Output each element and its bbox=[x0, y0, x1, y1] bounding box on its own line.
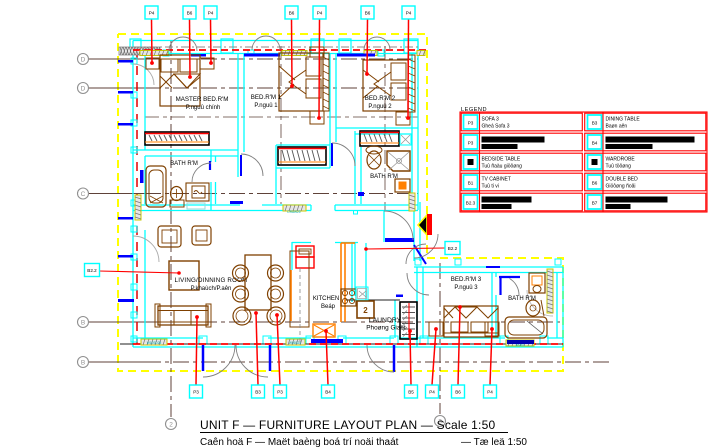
svg-text:B1: B1 bbox=[468, 181, 474, 186]
wall notch kitchen door L bbox=[310, 205, 312, 211]
grid line C y=193.5 bbox=[89, 193, 145, 195]
grid bubble B bbox=[78, 357, 89, 368]
legend row 4 R (B6 DOUBLE BED) bbox=[588, 175, 639, 190]
title underline bbox=[200, 432, 508, 434]
svg-text:P3: P3 bbox=[468, 141, 474, 146]
wall bottom inner seg3 bbox=[343, 337, 394, 339]
svg-text:Gheá Sofa 3: Gheá Sofa 3 bbox=[482, 124, 510, 130]
grid bubble D bbox=[78, 83, 89, 94]
svg-text:P.nguû chính: P.nguû chính bbox=[186, 105, 221, 111]
svg-text:P4: P4 bbox=[149, 11, 155, 16]
svg-text:P4: P4 bbox=[487, 390, 493, 395]
wall hall nook bottom bbox=[276, 167, 330, 169]
svg-text:2: 2 bbox=[169, 421, 173, 428]
wall bed3 left bbox=[416, 267, 418, 347]
wall left fill (dark red) bbox=[136, 50, 138, 344]
door blue kitchen back bbox=[311, 339, 343, 343]
door jamb bed3 bbox=[486, 266, 500, 268]
wall bath2 left inner bbox=[360, 147, 362, 204]
svg-text:BATH R'M: BATH R'M bbox=[508, 296, 536, 302]
wall kitchen left bbox=[291, 242, 293, 270]
wall bottom inner seg5 bbox=[547, 337, 563, 339]
window blue left bath1 bbox=[140, 170, 144, 183]
wall bed3-bath3 bbox=[491, 273, 493, 339]
wall bath2 top bbox=[336, 127, 418, 129]
svg-text:B5: B5 bbox=[408, 390, 414, 395]
svg-text:LAUNDRY: LAUNDRY bbox=[369, 317, 402, 324]
window sill top-right bbox=[417, 51, 425, 56]
door arc left wall living bbox=[133, 236, 159, 262]
window sill bottom kitchen bbox=[286, 339, 305, 345]
label box P4 bottom x=432 bbox=[426, 385, 439, 398]
door arc bed2 bbox=[332, 143, 355, 166]
svg-text:B3: B3 bbox=[592, 121, 598, 126]
svg-text:B4: B4 bbox=[325, 390, 331, 395]
wall top inner bbox=[133, 53, 418, 55]
toilet bath2 bbox=[366, 146, 382, 169]
wall kitchen-laundry bbox=[351, 243, 353, 302]
grid line D y=88 bbox=[89, 87, 145, 89]
wall left inner bbox=[144, 53, 146, 150]
wall topblock bottom inner2 bbox=[262, 204, 311, 206]
svg-text:P3: P3 bbox=[193, 390, 199, 395]
wall bed3-bath3 inner bbox=[495, 273, 497, 278]
leader top 1 bbox=[151, 19, 154, 63]
wall top outer bbox=[133, 40, 418, 42]
grid bubble 2 bbox=[166, 419, 177, 430]
wall bottom black line bbox=[120, 343, 563, 345]
corner hatch block top-left bbox=[119, 47, 160, 55]
window swing top 1a bbox=[169, 37, 183, 51]
window blue top seg2 bbox=[337, 54, 375, 57]
door leaf bath3 bbox=[499, 276, 501, 295]
wall bed3 left inner bbox=[422, 267, 424, 338]
window sill right bath3 bbox=[547, 269, 553, 313]
fridge kitchen bbox=[296, 246, 314, 268]
door arc bed3 entry bbox=[407, 273, 429, 295]
svg-text:KITCHEN: KITCHEN bbox=[313, 296, 339, 302]
wardrobe B4 hall (hatched) bbox=[278, 147, 326, 165]
label box P4 top x=319.5 bbox=[313, 6, 326, 19]
wall right-top inner bbox=[411, 53, 413, 204]
leader top 6 bbox=[366, 19, 369, 74]
window sill bottom living bbox=[141, 339, 167, 345]
window blue left y218 bbox=[118, 217, 133, 220]
wall kitchen top L bbox=[292, 242, 311, 244]
legend row 1 R (B3 DINING TABLE) bbox=[588, 115, 641, 130]
door arc living R bbox=[236, 345, 268, 377]
door arc living L bbox=[203, 345, 235, 377]
svg-text:B6: B6 bbox=[455, 390, 461, 395]
door blue bath3 bottom bbox=[507, 340, 534, 344]
svg-text:MASTER BED.R'M: MASTER BED.R'M bbox=[176, 96, 229, 103]
leader bottom 6 bbox=[432, 329, 436, 385]
door arc master bbox=[241, 154, 263, 176]
window swing top 2a bbox=[252, 36, 266, 50]
door arc entry lower bbox=[406, 244, 426, 264]
wall entry left bbox=[413, 202, 415, 261]
wall entry left inner bbox=[419, 202, 421, 261]
armchair 1 living bbox=[158, 226, 181, 247]
window swing top 3b bbox=[377, 37, 390, 50]
leader bottom 8 bbox=[490, 329, 492, 385]
grid line 2 (vertical) bbox=[170, 40, 172, 417]
wall master-bed1 inner bbox=[243, 53, 245, 152]
red dashed line bottom wall bbox=[133, 343, 563, 345]
svg-text:BATH R'M: BATH R'M bbox=[370, 174, 398, 180]
mirror box bath2 bbox=[400, 134, 411, 145]
double bed B6 (bedroom 2) bbox=[363, 55, 415, 125]
legend row 3 R (sq WARDROBE) bbox=[588, 155, 636, 170]
wall jamb boxes (cyan) bbox=[131, 50, 561, 344]
window blue left y61 bbox=[118, 60, 133, 63]
wall master-bed1 outer bbox=[237, 53, 239, 177]
leader top 5 bbox=[318, 19, 321, 118]
svg-text:B6: B6 bbox=[592, 181, 598, 186]
svg-text:P4: P4 bbox=[429, 390, 435, 395]
leader bottom 2 bbox=[256, 313, 258, 385]
grid line B y=362 bbox=[89, 361, 145, 363]
wall right outer bbox=[562, 267, 564, 347]
svg-text:P.khaùch/P.aên: P.khaùch/P.aên bbox=[191, 286, 232, 292]
svg-text:W10SD25: W10SD25 bbox=[147, 341, 162, 345]
grid line B y=322 bbox=[89, 321, 145, 323]
wall bottom outer bbox=[133, 346, 563, 348]
grid line 3 (vertical) bbox=[439, 263, 441, 414]
drying rack laundry B5 bbox=[400, 302, 417, 339]
stove kitchen bbox=[341, 289, 356, 306]
svg-text:DRAW25: DRAW25 bbox=[287, 210, 300, 214]
sink bath2 bbox=[395, 179, 410, 192]
door arc right wall bbox=[527, 290, 553, 316]
door leaf living balcony L bbox=[202, 345, 205, 371]
red dashed line top wall bbox=[133, 49, 427, 51]
wall left inner living bbox=[144, 230, 146, 338]
vanity bath2 (hatched) bbox=[360, 131, 399, 146]
grid bubble 3 bbox=[435, 416, 446, 427]
svg-text:UNIT F — FURNITURE LAYOUT: UNIT F — FURNITURE LAYOUT PLAN — Scale 1… bbox=[200, 418, 495, 432]
wall master-bath1 bottom bbox=[145, 155, 238, 157]
legend row 1 L (P3 SOFA 3) bbox=[464, 115, 510, 130]
label box B2.2 left bbox=[85, 264, 100, 277]
window blue left y256 bbox=[118, 255, 133, 258]
svg-text:P.nguû 2: P.nguû 2 bbox=[368, 104, 392, 110]
window sill bath2 right bbox=[409, 193, 415, 211]
door leaf master bbox=[240, 155, 242, 176]
svg-text:Phoøng Giaët: Phoøng Giaët bbox=[366, 325, 406, 332]
coffee table B2.2 bbox=[169, 261, 199, 290]
svg-text:DINING TABLE: DINING TABLE bbox=[606, 117, 641, 123]
label box P4 top x=151.5 bbox=[145, 6, 158, 19]
svg-text:B3: B3 bbox=[255, 390, 261, 395]
wall topblock bottom inner3 bbox=[335, 204, 418, 206]
wall bath1 right upper bbox=[210, 150, 212, 162]
svg-text:Tuû töôøng: Tuû töôøng bbox=[606, 164, 632, 170]
wall bath2 left bbox=[354, 131, 356, 204]
svg-text:BATH R'M: BATH R'M bbox=[170, 161, 198, 167]
window swing top 3a bbox=[364, 37, 377, 50]
wall left inner lower bbox=[144, 156, 146, 204]
label box P3 bottom x=196 bbox=[190, 385, 203, 398]
washbasin bath3 bbox=[526, 300, 544, 316]
svg-text:B: B bbox=[81, 319, 85, 326]
svg-text:BED.R'M 1: BED.R'M 1 bbox=[251, 94, 282, 101]
legend row 3 L (sq BEDSIDE TABLE) bbox=[464, 155, 523, 170]
wall bath1 right lower bbox=[210, 182, 212, 210]
svg-text:B2.2: B2.2 bbox=[448, 246, 458, 251]
svg-text:B2.3: B2.3 bbox=[466, 201, 476, 206]
window sill bottom bath3 bbox=[506, 340, 534, 346]
wall entry hall left bbox=[383, 211, 385, 242]
wall bed3-bath3 lower bbox=[495, 295, 497, 338]
svg-text:BED.R'M 3: BED.R'M 3 bbox=[451, 276, 482, 283]
wall bottom inner seg1 bbox=[133, 337, 203, 339]
window sill top-mid2 bbox=[282, 51, 307, 56]
bed2 centerline bbox=[384, 46, 386, 210]
window sill left bath1 bbox=[135, 195, 141, 220]
svg-text:SOFA 3: SOFA 3 bbox=[482, 117, 499, 123]
leader bottom 5 bbox=[410, 331, 411, 385]
leader top 4 bbox=[291, 19, 294, 86]
washing machine box bbox=[356, 287, 368, 300]
kitchen counter left (orange) bbox=[290, 251, 309, 327]
wall topblock bottom outer bbox=[133, 210, 311, 212]
door leaf bed2 bbox=[331, 143, 333, 166]
window swing top 1b bbox=[183, 37, 197, 51]
legend row 2 L (P3 redacted) bbox=[464, 135, 545, 149]
wall kitchen-laundry2 bbox=[354, 243, 356, 296]
wall bed1-bed2 inner bbox=[335, 53, 337, 142]
door leaf bath1 (blue) bbox=[209, 161, 211, 170]
svg-text:P3: P3 bbox=[468, 121, 474, 126]
washbasin bath1 bbox=[186, 183, 209, 209]
kitchen sink B4 bbox=[313, 324, 335, 337]
double bed B6 (bedroom 1) bbox=[279, 47, 329, 124]
bed1 centerline bbox=[280, 46, 282, 204]
label box B3 bottom x=258 bbox=[252, 385, 265, 398]
door arc laundry bbox=[367, 345, 394, 372]
label box B2.2 right bbox=[445, 242, 460, 255]
label box P4 top x=210.5 bbox=[204, 6, 217, 19]
svg-text:P4: P4 bbox=[317, 11, 323, 16]
door arc left wall top bbox=[133, 64, 154, 85]
wall right-section top outer bbox=[414, 266, 563, 268]
wall laundry left bbox=[365, 243, 367, 300]
svg-text:P.nguû 1: P.nguû 1 bbox=[254, 103, 278, 109]
svg-text:B4: B4 bbox=[592, 141, 598, 146]
wall notch vent bbox=[354, 211, 358, 215]
wardrobe master (hatched) bbox=[145, 132, 209, 145]
svg-text:BEDSIDE TABLE: BEDSIDE TABLE bbox=[482, 157, 521, 163]
window blue top seg3 bbox=[191, 54, 206, 57]
window blue corridor bbox=[230, 201, 243, 204]
wall topblock bottom outer3 bbox=[335, 210, 418, 212]
svg-text:Beáp: Beáp bbox=[321, 304, 336, 310]
svg-text:Tuû ñaàu giöôøng: Tuû ñaàu giöôøng bbox=[482, 164, 523, 170]
window blue laundry bbox=[396, 295, 403, 298]
door leaf laundry bbox=[393, 345, 396, 372]
gray dashed line top wall bbox=[133, 46, 418, 48]
label box B6 top x=367.5 bbox=[361, 6, 374, 19]
door arc bath3 bbox=[510, 279, 520, 296]
svg-text:Tuû ti vi: Tuû ti vi bbox=[482, 184, 499, 190]
legend row 5 L (B2.3 redacted) bbox=[464, 195, 532, 209]
kitchen counter right (orange) bbox=[340, 243, 342, 322]
site boundary (yellow dashed) bbox=[118, 34, 563, 371]
cabinet box 2 kitchen bbox=[357, 301, 374, 318]
svg-text:— Tæ leä 1:50: — Tæ leä 1:50 bbox=[461, 437, 527, 448]
svg-text:P3: P3 bbox=[277, 390, 283, 395]
window sill hall bottom bbox=[283, 205, 306, 211]
wall notch kitchen door R bbox=[334, 205, 336, 211]
svg-text:P4: P4 bbox=[208, 11, 214, 16]
double bed B6 (bedroom 3) bbox=[429, 306, 499, 337]
double bed B6 (master) bbox=[146, 55, 214, 106]
leader top 7 bbox=[407, 19, 410, 118]
window blue left y124 bbox=[118, 123, 133, 126]
legend row 5 R (B7 redacted) bbox=[588, 195, 668, 209]
laundry top line (black) bbox=[345, 299, 400, 301]
window blue top seg1 bbox=[244, 54, 280, 57]
label box P4 top x=408.5 bbox=[402, 6, 415, 19]
wall laundry right bbox=[394, 300, 396, 338]
svg-text:DOUBLE BED: DOUBLE BED bbox=[606, 177, 639, 183]
label box B6 top x=189.5 bbox=[183, 6, 196, 19]
svg-text:B6: B6 bbox=[365, 11, 371, 16]
svg-text:P.nguû 3: P.nguû 3 bbox=[454, 285, 478, 291]
wall right-section top inner bbox=[414, 272, 563, 274]
leader bottom 3 bbox=[277, 315, 280, 385]
kitchen dashed divider bbox=[299, 268, 301, 345]
door arc kitchen hall bbox=[384, 211, 413, 240]
leader bottom 4 bbox=[326, 331, 328, 385]
wall topblock bottom inner bbox=[133, 204, 240, 206]
armchair 2 living bbox=[192, 226, 211, 245]
bed centerline y=117 bbox=[145, 116, 418, 118]
svg-text:W06S25: W06S25 bbox=[289, 341, 301, 345]
bathtub bath3 bbox=[505, 317, 547, 338]
window sill top-mid bbox=[364, 51, 377, 56]
label box B6 top x=291.5 bbox=[285, 6, 298, 19]
door arc bath1 bbox=[192, 163, 211, 182]
window swing top 2b bbox=[266, 36, 280, 50]
label box B6 bottom x=458 bbox=[452, 385, 465, 398]
wall master-bath1 top bbox=[133, 149, 238, 151]
sofa 3 P3 bbox=[155, 304, 211, 327]
door leaf living balcony R bbox=[269, 345, 272, 371]
wall bottom inner seg2 bbox=[268, 337, 311, 339]
entry fire door symbol bbox=[418, 214, 432, 235]
wall kitchen top R bbox=[335, 242, 358, 244]
legend row 2 R (B4 redacted) bbox=[588, 135, 695, 149]
svg-text:Caên hoä F — Maët baèng boá tr: Caên hoä F — Maët baèng boá trí noäi tha… bbox=[200, 437, 399, 448]
leader bottom 1 bbox=[196, 317, 197, 385]
wall right-top outer bbox=[417, 41, 419, 211]
svg-text:P4: P4 bbox=[406, 11, 412, 16]
leader right B2.2 bbox=[366, 248, 445, 249]
shower bath2 bbox=[387, 151, 410, 171]
door arc entry upper bbox=[414, 234, 438, 258]
leader bottom 7 bbox=[458, 307, 460, 385]
wall hall nook side bbox=[275, 145, 277, 204]
toilet bath3 bbox=[529, 273, 545, 293]
wall bath2 top inner bbox=[355, 133, 412, 135]
door leaf entry hall (blue) bbox=[385, 238, 414, 242]
svg-text:BED.R'M 2: BED.R'M 2 bbox=[365, 95, 396, 102]
door leaf entry bbox=[414, 245, 426, 264]
svg-text:WARDROBE: WARDROBE bbox=[606, 157, 636, 163]
top wall jamb boxes bbox=[130, 39, 418, 53]
svg-text:D: D bbox=[81, 56, 86, 63]
wall bed1-bed2 outer bbox=[329, 53, 331, 168]
wall left outer bbox=[132, 41, 134, 348]
svg-text:B: B bbox=[81, 359, 85, 366]
label box P3 bottom x=280 bbox=[274, 385, 287, 398]
legend table grid bbox=[460, 112, 707, 212]
grid line D y=59 bbox=[89, 58, 145, 60]
wall hall nook top bbox=[276, 144, 330, 146]
svg-text:B7: B7 bbox=[592, 201, 598, 206]
grid bubble C bbox=[78, 188, 89, 199]
svg-text:B6: B6 bbox=[187, 11, 193, 16]
svg-text:B6: B6 bbox=[289, 11, 295, 16]
bathtub bath1 bbox=[146, 166, 166, 207]
leader top 2 bbox=[189, 19, 192, 77]
svg-text:D: D bbox=[81, 85, 86, 92]
door head bath3 bbox=[499, 276, 520, 278]
grid bubble B bbox=[78, 317, 89, 328]
svg-text:2: 2 bbox=[363, 306, 368, 315]
dining table B3 with chairs bbox=[233, 255, 286, 325]
leader left B2.2 bbox=[99, 271, 179, 273]
svg-text:Giöôøng ñoâi: Giöôøng ñoâi bbox=[606, 184, 636, 190]
wall right inner bbox=[556, 273, 558, 339]
grid bubble D bbox=[78, 54, 89, 65]
label box P4 bottom x=490 bbox=[484, 385, 497, 398]
leader top 3 bbox=[210, 19, 213, 63]
window blue left y300 bbox=[118, 299, 134, 302]
window sill top-left bbox=[140, 51, 168, 56]
svg-text:TV CABINET: TV CABINET bbox=[482, 177, 511, 183]
wall corner blue bath2 bbox=[358, 192, 364, 196]
legend row 4 L (B1 TV CABINET) bbox=[464, 175, 511, 190]
svg-text:C: C bbox=[81, 191, 86, 198]
svg-text:Baøn aên: Baøn aên bbox=[606, 124, 628, 130]
wall bottom inner seg4 bbox=[399, 337, 505, 339]
toilet bath1 bbox=[170, 187, 184, 208]
svg-text:B2.2: B2.2 bbox=[87, 268, 97, 273]
label box B4 bottom x=328 bbox=[322, 385, 335, 398]
label box B5 bottom x=411 bbox=[405, 385, 418, 398]
window blue left y92 bbox=[118, 91, 133, 94]
